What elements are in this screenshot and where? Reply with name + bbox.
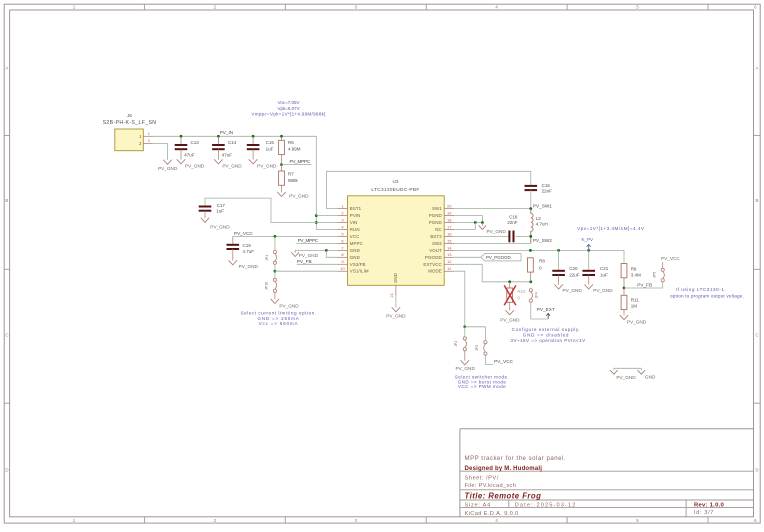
junction PGND ground <box>481 221 484 224</box>
svg-text:D: D <box>755 468 758 473</box>
svg-text:PV_PGOOD: PV_PGOOD <box>486 255 511 260</box>
node PV_EXT label <box>537 307 555 319</box>
connector J6 <box>103 113 157 151</box>
svg-text:Vcc => 660mA: Vcc => 660mA <box>259 321 299 326</box>
junction PV_SW1 <box>529 207 532 210</box>
note Vmppc calculation <box>251 100 325 117</box>
ground PV_GND at U3 pad <box>386 308 406 319</box>
svg-text:PV_GND: PV_GND <box>185 163 205 168</box>
ground PV_GND at JP2 <box>456 361 476 372</box>
svg-text:GND: GND <box>393 273 398 283</box>
svg-text:R11: R11 <box>631 297 639 302</box>
svg-text:SW2: SW2 <box>432 241 442 246</box>
svg-text:22nF: 22nF <box>542 188 553 193</box>
svg-text:JP10: JP10 <box>265 282 269 290</box>
svg-text:R7: R7 <box>288 171 294 176</box>
ground PV_GND at C13 <box>177 160 205 169</box>
node PV_MPPC label (divider) <box>290 159 311 164</box>
svg-text:VCC => PWM mode: VCC => PWM mode <box>458 384 506 389</box>
pin 1 of J6 <box>143 131 152 136</box>
wire EXTVCC pin <box>454 264 531 282</box>
svg-text:PVIN: PVIN <box>350 213 361 218</box>
wire VCC net <box>233 235 338 237</box>
svg-text:C14: C14 <box>228 140 237 145</box>
svg-text:PV_GND: PV_GND <box>627 320 647 325</box>
wire BST1 loop <box>327 171 531 208</box>
svg-text:R10: R10 <box>518 289 526 294</box>
svg-text:KiCad E.D.A. 9.0.0: KiCad E.D.A. 9.0.0 <box>465 511 519 517</box>
junction PVIN row <box>315 214 318 217</box>
node PV_VCC label (JP3) <box>494 359 513 364</box>
svg-text:C: C <box>5 333 8 338</box>
wire MODE pin <box>454 271 465 327</box>
ground PV_GND (tie) <box>610 370 636 380</box>
resistor R11 <box>621 288 639 315</box>
wire pin21 to ground <box>395 295 397 307</box>
svg-text:option to program output volta: option to program output voltage. <box>670 293 744 298</box>
svg-text:Designed by M. Hudomalj: Designed by M. Hudomalj <box>465 466 543 472</box>
svg-text:R6: R6 <box>288 140 294 145</box>
svg-text:PGOOD: PGOOD <box>425 255 442 260</box>
svg-text:PV_VCC: PV_VCC <box>234 231 253 236</box>
wire PV_FB <box>624 282 663 288</box>
svg-text:MPPC: MPPC <box>350 241 363 246</box>
wire NC pin17 <box>454 223 475 230</box>
svg-text:VS2/FB: VS2/FB <box>350 262 366 267</box>
node PV_PGOOD global label <box>481 254 521 261</box>
svg-text:JP5: JP5 <box>653 272 657 278</box>
svg-text:C19: C19 <box>243 243 252 248</box>
junction at R6 <box>280 135 283 138</box>
svg-text:BST2: BST2 <box>430 234 442 239</box>
junction C20 top <box>557 249 560 252</box>
svg-text:16: 16 <box>447 231 452 236</box>
svg-text:JP3: JP3 <box>475 345 479 351</box>
svg-text:PV_GND: PV_GND <box>616 375 636 380</box>
svg-text:R9: R9 <box>631 267 637 272</box>
svg-text:PV_FB: PV_FB <box>297 259 312 264</box>
node K_PV label <box>582 237 594 251</box>
svg-text:Date: 2025-03-12: Date: 2025-03-12 <box>515 503 577 509</box>
svg-text:3.4M: 3.4M <box>631 272 641 277</box>
svg-text:GND: GND <box>350 248 360 253</box>
svg-text:22uF: 22uF <box>569 272 580 277</box>
resistor R9 <box>621 264 641 289</box>
svg-text:PV_MPPC: PV_MPPC <box>290 159 311 164</box>
svg-text:PV_EXT: PV_EXT <box>537 307 555 312</box>
svg-text:15: 15 <box>447 238 452 243</box>
svg-text:VOUT: VOUT <box>429 248 442 253</box>
svg-text:Rev: 1.0.0: Rev: 1.0.0 <box>694 502 724 508</box>
svg-text:BST1: BST1 <box>350 206 362 211</box>
svg-text:C17: C17 <box>217 203 226 208</box>
svg-text:Size: A4: Size: A4 <box>465 503 491 509</box>
note current limiting option <box>240 310 316 326</box>
svg-text:Vpv=1V*[1+3.4M/1M]=4.4V: Vpv=1V*[1+3.4M/1M]=4.4V <box>577 226 645 231</box>
wire to RUN pin <box>316 229 337 231</box>
ground PV_GND at C17 <box>201 218 230 230</box>
wire JP3 to PV_VCC <box>485 355 493 364</box>
junction C21/K_PV <box>587 249 590 252</box>
svg-text:Configure external supply.: Configure external supply. <box>512 327 581 332</box>
svg-text:NC: NC <box>435 227 442 232</box>
svg-text:PV_GND: PV_GND <box>289 194 309 199</box>
svg-text:GND => disabled: GND => disabled <box>523 332 570 337</box>
junction PV_MPPC divider <box>280 163 283 166</box>
node PV_MPPC label (pin6) <box>298 238 319 243</box>
junction PV_SW2 <box>529 235 532 238</box>
capacitor C18 <box>454 214 531 242</box>
wire pin7 to pin8 <box>326 250 337 257</box>
svg-text:14: 14 <box>447 245 452 250</box>
note Vpv calculation <box>577 226 645 231</box>
junction at C15 <box>252 135 255 138</box>
svg-text:1uF: 1uF <box>216 209 224 214</box>
svg-text:12: 12 <box>447 259 452 264</box>
svg-text:PV_GND: PV_GND <box>500 317 520 322</box>
capacitor C19 <box>227 236 255 260</box>
wire VOUT rail <box>454 250 624 263</box>
svg-text:If using LTC3130-1,: If using LTC3130-1, <box>676 287 726 292</box>
svg-text:LTC3130EUDC-PBF: LTC3130EUDC-PBF <box>371 187 419 192</box>
svg-text:PV_GND: PV_GND <box>279 304 299 309</box>
wire JP4 to PV_EXT <box>531 302 548 319</box>
wire JP1 to ILIM row <box>274 264 276 271</box>
inductor L2 <box>531 209 548 244</box>
svg-text:4.7uH: 4.7uH <box>536 222 548 227</box>
svg-text:47uF: 47uF <box>184 152 195 157</box>
wire MODE to JP3 <box>465 327 486 341</box>
svg-text:47uF: 47uF <box>222 152 233 157</box>
ground PV_GND at C15 <box>249 160 277 169</box>
ground PV_GND at R11 <box>620 315 647 324</box>
svg-text:PV_GND: PV_GND <box>563 288 583 293</box>
ground GND (tie) <box>638 370 656 379</box>
svg-text:U3: U3 <box>393 179 399 184</box>
node PV_FB label (pin9) <box>297 259 312 264</box>
svg-text:22nF: 22nF <box>507 220 518 225</box>
svg-text:A: A <box>756 66 759 71</box>
svg-text:JP4: JP4 <box>535 292 539 298</box>
svg-text:PGND: PGND <box>429 220 442 225</box>
capacitor C15 <box>247 136 275 159</box>
svg-text:PV_GND: PV_GND <box>456 366 476 371</box>
note external supply <box>510 327 586 343</box>
svg-text:10: 10 <box>340 266 345 271</box>
svg-text:PV_GND: PV_GND <box>239 264 259 269</box>
svg-text:PV_GND: PV_GND <box>386 314 406 319</box>
note switcher mode <box>455 375 509 390</box>
svg-text:Id: 3/7: Id: 3/7 <box>694 510 714 516</box>
wire ILIM row <box>275 270 338 272</box>
svg-text:MPP tracker for the solar pane: MPP tracker for the solar panel. <box>465 455 567 462</box>
wire to PVIN pin <box>316 215 337 217</box>
ground PV_GND at R7 <box>278 192 310 198</box>
svg-text:PV_GND: PV_GND <box>299 253 319 258</box>
capacitor C17 <box>199 198 317 222</box>
resistor R7 <box>279 165 299 193</box>
svg-text:C21: C21 <box>600 266 609 271</box>
wire VCC to JP1 <box>274 236 276 250</box>
capacitor C13 <box>175 136 200 159</box>
svg-text:1uF: 1uF <box>600 272 608 277</box>
svg-text:GND: GND <box>645 375 656 380</box>
svg-text:PV_GND: PV_GND <box>487 229 507 234</box>
svg-text:18: 18 <box>447 217 452 222</box>
svg-text:B: B <box>5 198 8 203</box>
svg-text:Select current limiting option: Select current limiting option. <box>240 310 316 315</box>
op-amp U3 LTC3130EUDC-PBF body <box>348 179 445 285</box>
ground PV_GND at C19 <box>229 261 259 270</box>
svg-text:C: C <box>755 333 758 338</box>
svg-text:GND => 250mA: GND => 250mA <box>257 316 299 321</box>
junction R8 bottom <box>529 280 532 283</box>
svg-text:Vpk=6.07V: Vpk=6.07V <box>278 106 300 111</box>
U3 pin 21 (GND pad) <box>389 285 396 297</box>
svg-text:SW1: SW1 <box>432 206 442 211</box>
ground PV_GND at pins 7-8 <box>292 250 319 258</box>
junction at C14 <box>217 135 220 138</box>
svg-text:988k: 988k <box>288 178 299 183</box>
U3 right pin stubs <box>444 204 454 272</box>
wire FB pin <box>297 263 338 265</box>
wire MODE to JP2 <box>464 327 466 337</box>
jumper JP10 <box>265 271 277 299</box>
svg-text:C13: C13 <box>191 140 200 145</box>
svg-text:3V~15V => operation PVIn<1V: 3V~15V => operation PVIn<1V <box>510 338 586 343</box>
svg-text:R8: R8 <box>539 258 545 263</box>
pin 2 of J6 <box>143 138 152 143</box>
svg-text:PV_GND: PV_GND <box>222 163 242 168</box>
wire to VIN pin <box>316 222 337 224</box>
wire SW2 <box>454 242 531 244</box>
svg-text:PV_GND: PV_GND <box>257 163 277 168</box>
wire PGND pin18 <box>454 222 482 224</box>
node PV_IN label <box>220 130 234 135</box>
junction GND pins <box>325 249 328 252</box>
ground PV_GND at C20 <box>555 285 583 293</box>
jumper JP5 <box>653 268 665 282</box>
svg-text:PV_SW2: PV_SW2 <box>533 238 552 243</box>
junction MODE branch <box>463 325 466 328</box>
wire PV_IN rail <box>153 136 317 229</box>
svg-text:PV_GND: PV_GND <box>158 166 178 171</box>
wire J6 pin2 to ground <box>153 143 168 160</box>
svg-text:PGND: PGND <box>429 213 442 218</box>
svg-text:EXTVCC: EXTVCC <box>423 262 441 267</box>
wire GND pin7 <box>295 249 337 251</box>
ground PV_GND at PGND <box>479 223 507 235</box>
ground PV_GND at C21 <box>585 285 613 293</box>
junction VCC/JP1 <box>274 235 277 238</box>
resistor R6 <box>279 136 301 164</box>
svg-text:PV_SW1: PV_SW1 <box>533 203 552 208</box>
capacitor C20 <box>552 250 580 284</box>
svg-text:C18: C18 <box>509 214 518 219</box>
jumper JP1 <box>265 250 276 264</box>
svg-text:File: PV.kicad_sch: File: PV.kicad_sch <box>465 483 517 489</box>
svg-text:L2: L2 <box>536 216 542 221</box>
svg-text:PV_MPPC: PV_MPPC <box>298 238 319 243</box>
svg-text:RUN: RUN <box>350 227 360 232</box>
svg-text:JP2: JP2 <box>454 341 458 347</box>
resistor R8 <box>528 258 546 282</box>
ground PV_GND at J6 <box>158 160 178 171</box>
resistor R10 (DNP) <box>504 282 526 311</box>
power PV_VCC at JP5 <box>661 256 680 268</box>
svg-text:PV_GND: PV_GND <box>593 288 613 293</box>
wire PGND pin19 <box>454 216 482 223</box>
svg-text:MODE: MODE <box>428 269 442 274</box>
junction R10 top <box>508 280 511 283</box>
svg-text:D: D <box>5 468 8 473</box>
junction R8 top <box>529 249 532 252</box>
svg-text:VS1/ILIM: VS1/ILIM <box>350 269 369 274</box>
svg-text:C16: C16 <box>542 183 551 188</box>
ground PV_GND at C14 <box>214 160 242 169</box>
wire PGOOD pin <box>454 256 481 258</box>
svg-text:20: 20 <box>447 204 452 209</box>
svg-text:B: B <box>756 198 759 203</box>
svg-text:13: 13 <box>447 252 452 257</box>
svg-text:GND: GND <box>350 255 360 260</box>
svg-text:PV_IN: PV_IN <box>220 130 234 135</box>
capacitor C21 <box>582 250 608 284</box>
svg-text:JP1: JP1 <box>265 255 269 261</box>
node PV_FB label <box>637 283 652 288</box>
jumper JP2 <box>454 337 467 361</box>
junction VIN row <box>315 221 318 224</box>
U3 left pin stubs <box>338 204 348 272</box>
svg-text:4.99M: 4.99M <box>288 146 301 151</box>
wire ground tie <box>614 368 641 370</box>
svg-text:PV_VCC: PV_VCC <box>661 256 680 261</box>
note LTC3130-1 option <box>670 287 744 298</box>
node PV_SW2 label <box>533 238 552 243</box>
jumper JP4 <box>529 289 539 303</box>
svg-text:PV_FB: PV_FB <box>637 283 652 288</box>
junction at C13 <box>180 135 183 138</box>
wire SW1 <box>454 208 531 210</box>
ground PV_GND at JP10 <box>271 299 299 308</box>
svg-text:4.7uF: 4.7uF <box>243 249 255 254</box>
svg-text:VIN: VIN <box>350 220 358 225</box>
svg-text:21: 21 <box>389 292 394 297</box>
svg-text:C15: C15 <box>266 140 275 145</box>
svg-text:Vmppc=Vpk=1V*[1+4.99M/988k]: Vmppc=Vpk=1V*[1+4.99M/988k] <box>251 112 325 117</box>
junction ILIM row <box>274 270 277 273</box>
node PV_VCC label <box>234 231 253 236</box>
svg-text:Sheet: /PV/: Sheet: /PV/ <box>465 476 499 482</box>
junction pin17 riser <box>474 221 477 224</box>
svg-text:17: 17 <box>447 224 452 229</box>
svg-text:S2B-PH-K-S_LF_SN: S2B-PH-K-S_LF_SN <box>103 120 157 126</box>
svg-text:PV_VCC: PV_VCC <box>494 359 513 364</box>
jumper JP3 <box>475 341 487 356</box>
ground PV_GND at R10 <box>500 311 520 323</box>
node PV_SW1 label <box>533 203 552 208</box>
wire MPPC pin <box>297 242 338 244</box>
svg-text:K_PV: K_PV <box>582 237 594 242</box>
svg-text:1uF: 1uF <box>266 146 274 151</box>
junction PV_FB node <box>623 287 626 290</box>
svg-text:C20: C20 <box>569 266 578 271</box>
svg-text:1M: 1M <box>631 304 638 309</box>
capacitor C16 <box>525 183 553 209</box>
svg-text:19: 19 <box>447 210 452 215</box>
wire PV_MPPC stub <box>282 164 312 166</box>
svg-text:VCC: VCC <box>350 234 360 239</box>
svg-text:PV_GND: PV_GND <box>210 225 230 230</box>
svg-text:A: A <box>5 66 8 71</box>
svg-text:Voc=7.05V: Voc=7.05V <box>278 100 300 105</box>
svg-text:Title: Remote Frog: Title: Remote Frog <box>465 491 542 500</box>
title block <box>460 429 754 517</box>
svg-text:J6: J6 <box>127 113 132 118</box>
capacitor C14 <box>212 136 237 159</box>
